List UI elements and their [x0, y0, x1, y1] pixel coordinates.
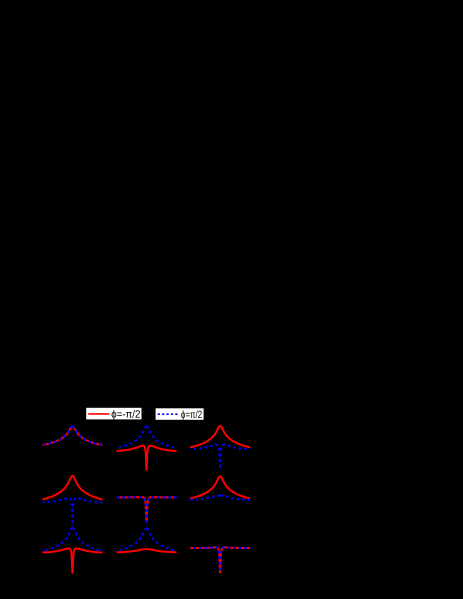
subplot (2,1) curve phi=+pi/2 (blue dotted)	[42, 498, 102, 523]
subplot (2,2) curve phi=+pi/2 (blue dotted)	[117, 497, 177, 523]
subplot (1,3) curve phi=-pi/2 (red solid)	[190, 426, 250, 447]
subplot (3,3) curve phi=-pi/2 (red solid)	[190, 547, 250, 573]
subplot (2,3) curve phi=+pi/2 (blue dotted)	[190, 496, 250, 500]
subplot (3,1) curve phi=+pi/2 (blue dotted)	[42, 528, 102, 551]
legend box phi=-pi/2	[86, 408, 141, 420]
subplot (2,2) curve phi=-pi/2 (red solid)	[117, 497, 177, 523]
subplot (1,2) curve phi=-pi/2 (red solid)	[117, 446, 177, 471]
legend box phi=pi/2	[156, 408, 204, 420]
subplot (1,1) curve phi=+pi/2 (blue dotted)	[42, 426, 102, 445]
subplot (2,1) curve phi=-pi/2 (red solid)	[42, 476, 102, 500]
subplot (3,1) curve phi=-pi/2 (red solid)	[42, 548, 102, 573]
subplot (3,3) curve phi=+pi/2 (blue dotted)	[190, 547, 250, 573]
subplot (3,2) curve phi=+pi/2 (blue dotted)	[117, 528, 177, 551]
subplot (3,2) curve phi=-pi/2 (red solid)	[117, 549, 177, 552]
subplot (1,3) curve phi=+pi/2 (blue dotted)	[190, 445, 250, 468]
subplot (2,3) curve phi=-pi/2 (red solid)	[190, 476, 250, 498]
subplot (1,2) curve phi=+pi/2 (blue dotted)	[117, 426, 177, 448]
subplot (1,1) curve phi=-pi/2 (red solid)	[42, 426, 102, 445]
